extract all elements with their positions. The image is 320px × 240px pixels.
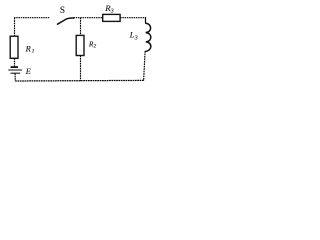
switch S blade [58,18,74,24]
svg-text:R: R [25,44,31,53]
svg-text:1: 1 [32,49,35,55]
resistor R3 [103,14,120,21]
svg-text:2: 2 [94,44,97,50]
svg-text:S: S [60,5,65,15]
wire bottom [15,79,144,82]
battery E plate lower [11,72,21,74]
svg-text:E: E [25,67,31,76]
wire right vertical below coil [144,51,146,81]
battery E plate short thick [11,66,18,68]
resistor R2 [76,35,84,55]
wire battery to bottom [14,74,16,81]
wire right vertical above coil [145,17,147,24]
battery E plate long thin [8,69,22,71]
resistor R1 [10,36,18,58]
svg-text:L: L [129,31,135,40]
svg-text:3: 3 [134,35,138,41]
wire between R1 and battery [14,58,16,66]
wire top-right segment [120,17,146,19]
wire left vertical top [14,18,16,37]
wire R2 branch lower [80,56,82,81]
wire top-middle segment [74,17,103,19]
wire R2 branch upper [80,18,82,36]
inductor L3 coil [145,23,151,51]
wire top-left segment [14,17,50,19]
svg-text:3: 3 [110,8,114,14]
